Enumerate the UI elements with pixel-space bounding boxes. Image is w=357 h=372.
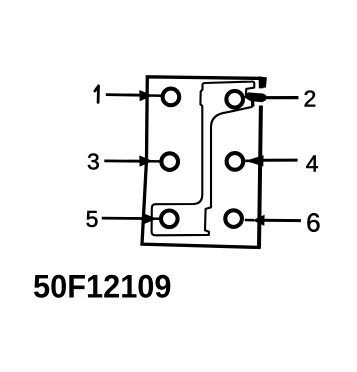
svg-text:50F12109: 50F12109 (33, 268, 172, 304)
arrow to pin 1 (106, 90, 162, 101)
svg-text:6: 6 (306, 208, 320, 238)
pin 4 (227, 153, 244, 170)
connector body right edge lower segment (259, 106, 261, 248)
pin 1 (163, 89, 180, 106)
pin 2 (226, 91, 243, 108)
arrow to pin 6 (245, 215, 301, 226)
connector body right edge upper segment (259, 78, 263, 88)
svg-text:5: 5 (86, 206, 99, 232)
svg-text:3: 3 (87, 149, 100, 175)
keyway (internal key outline) (152, 82, 255, 236)
pin 6 (225, 210, 242, 227)
arrow to pin 2 (244, 92, 299, 102)
arrow to pin 5 (102, 213, 160, 224)
pin number 1 (95, 86, 99, 103)
arrow to pin 3 (104, 155, 160, 166)
pin 3 (161, 153, 178, 170)
svg-text:4: 4 (306, 151, 319, 177)
arrow to pin 4 (245, 155, 297, 166)
connector body top-right corner ink blob (259, 76, 267, 88)
keyway ink thickening below pin 2 (251, 101, 255, 107)
connector body outline J1 (142, 77, 262, 248)
svg-text:2: 2 (304, 85, 317, 111)
pin 5 (161, 211, 178, 228)
